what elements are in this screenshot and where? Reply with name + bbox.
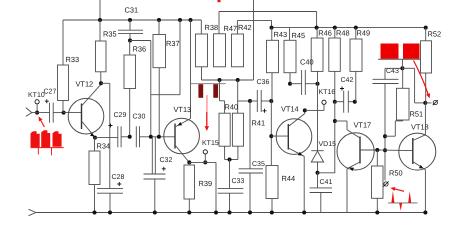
capacitor C41 (310, 187, 332, 189)
wire: vertical feed to top edge x=100 (99, 0, 101, 20)
red arrow to KT15 (206, 95, 208, 126)
svg-text:R49: R49 (357, 29, 371, 38)
red arrow from pulses to phi (414, 61, 429, 96)
VT17 collector (347, 130, 360, 138)
resistor R34 (89, 151, 100, 185)
resistor R43 (267, 40, 279, 72)
annotation baseline over maroon bars (190, 83, 226, 85)
wire: R36 feed/bottom (129, 41, 131, 56)
tiny red tick top (218, 0, 221, 2)
wire: C43 top to node (384, 68, 386, 79)
wire: R48 bottom (334, 71, 336, 101)
VT13 emitter (175, 145, 189, 162)
svg-text:C40: C40 (300, 57, 314, 66)
wire: y=101.3 bias wire (220, 100, 225, 102)
node rail A junctions (98, 18, 102, 22)
wire: R51 bottom jog (385, 135, 395, 137)
svg-text:VT14: VT14 (281, 104, 299, 113)
svg-text:R41: R41 (252, 118, 266, 127)
wire: C43 bottom down (384, 84, 386, 181)
capacitor C36 (256, 90, 258, 112)
svg-text:R39: R39 (199, 179, 213, 188)
resistor R52 (421, 41, 432, 73)
svg-text:R50: R50 (389, 168, 403, 177)
capacitor C33 (218, 187, 244, 189)
VT13 base bar (174, 124, 176, 149)
capacitor C30 (135, 126, 137, 147)
VT18 collector (424, 103, 426, 135)
resistor R35 (96, 41, 107, 72)
svg-text:VT12: VT12 (76, 79, 94, 88)
resistor R33 (58, 65, 69, 101)
svg-text:VD15: VD15 (319, 141, 337, 148)
svg-text:KT15: KT15 (202, 140, 219, 147)
wire: R46 bottom down to VD15 (317, 71, 319, 150)
wire: input to C27 (32, 112, 50, 114)
svg-text:R43: R43 (274, 30, 288, 39)
input chevron (26, 108, 32, 113)
resistor R51 (397, 88, 410, 120)
resistor R47 (214, 34, 226, 67)
capacitor C40 (301, 70, 303, 95)
bus input chevron (29, 209, 37, 212)
svg-text:C28: C28 (112, 174, 125, 181)
measurement stub phi (425, 102, 431, 104)
capacitor C32 (144, 173, 166, 175)
wire: VT17/VT18 base bus (377, 149, 413, 152)
red rect pulses (381, 44, 399, 59)
maroon pulse bars (198, 84, 203, 98)
VT12 emitter (82, 121, 95, 137)
svg-text:R51: R51 (410, 109, 424, 118)
wire: rail B y=11.5 (219, 11, 317, 13)
svg-text:R38: R38 (205, 23, 219, 32)
resistor R50 (372, 166, 384, 198)
resistor R44 (266, 166, 278, 199)
resistor R48 (329, 38, 341, 71)
svg-text:C30: C30 (133, 113, 146, 120)
svg-text:R46: R46 (318, 29, 332, 38)
resistor R37 (153, 35, 166, 68)
svg-text:C35: C35 (252, 161, 265, 168)
VT14 emitter (288, 148, 304, 156)
svg-text:VT13: VT13 (174, 105, 192, 114)
wire: rail drop x=180 to join x=150.8 (179, 20, 181, 95)
svg-text:C42: C42 (341, 77, 354, 84)
svg-text:R48: R48 (336, 29, 350, 38)
svg-text:R33: R33 (66, 55, 80, 64)
svg-text:C32: C32 (160, 157, 173, 164)
svg-text:R52: R52 (428, 29, 442, 38)
resistor R36 (124, 55, 136, 89)
svg-text:R36: R36 (133, 44, 147, 53)
svg-text:C36: C36 (257, 79, 270, 86)
wire: rail A y=20 (63, 19, 201, 21)
svg-text:R42: R42 (238, 23, 252, 32)
VT12 base bar (81, 104, 83, 130)
svg-text:R47: R47 (224, 24, 238, 33)
svg-text:R35: R35 (103, 30, 117, 39)
wire: R35 feed (99, 20, 101, 41)
red waveform at input (31, 131, 40, 147)
wire: node right to R52 bottom (402, 67, 414, 69)
wire: down to VT17 (334, 102, 336, 173)
red arrow annotation at KT10 (40, 119, 45, 127)
node input junction (35, 111, 39, 115)
wire: emitter bus y=137 (95, 137, 118, 139)
wire: R43 bottom (271, 73, 273, 101)
svg-text:R40: R40 (225, 102, 239, 111)
VT14 collector (288, 114, 305, 127)
capacitor C43 (373, 78, 399, 80)
svg-text:R37: R37 (166, 39, 180, 48)
capacitor C35 (239, 168, 263, 170)
wire: rail D y=27.6 (272, 27, 426, 29)
svg-text:VT17: VT17 (354, 120, 372, 129)
wire: R38/R47/R42 bottom bus y=80 (201, 67, 203, 80)
capacitor C42 (343, 91, 345, 113)
wire: vertical from top edge x=253.5 (253, 0, 255, 80)
resistor R46 (311, 38, 323, 71)
svg-text:C33: C33 (232, 178, 245, 185)
svg-text:VT18: VT18 (411, 122, 429, 131)
svg-text:C41: C41 (320, 179, 333, 186)
capacitor C31 (118, 29, 143, 31)
resistor R42 (232, 34, 244, 67)
capacitor C28 (97, 188, 123, 190)
wire: VT13 collector feed (190, 20, 192, 119)
VT18 emitter (413, 162, 426, 170)
wire: C31 bottom branch right (130, 40, 151, 42)
transistor VT18 (399, 133, 436, 170)
resistor R49 (350, 39, 362, 71)
svg-text:R44: R44 (282, 174, 296, 183)
ground bus (36, 212, 425, 214)
svg-text:C43: C43 (386, 68, 399, 75)
wire: down to VT14 base and R44 (270, 101, 272, 166)
resistor R38 (196, 34, 208, 67)
wire: R40/R41 bottoms join (224, 146, 226, 159)
transistor VT13 (164, 118, 200, 154)
capacitor C27 (49, 103, 51, 123)
svg-text:R45: R45 (292, 31, 306, 40)
VT13 collector (175, 119, 191, 128)
red arrow to phi2 (393, 188, 405, 191)
svg-text:C27: C27 (44, 89, 57, 96)
transistor VT17 (337, 133, 374, 170)
svg-text:KT10: KT10 (28, 92, 45, 99)
svg-text:C29: C29 (114, 112, 127, 119)
resistor R39 (184, 165, 195, 199)
resistor R45 (284, 40, 296, 72)
transistor VT12 (68, 98, 104, 134)
wire: collector loop to C28 (101, 82, 110, 84)
VT17 emitter (347, 162, 360, 169)
resistor R41 (232, 113, 243, 146)
capacitor C29 (117, 126, 119, 147)
wire: R37 top/bottom (158, 20, 160, 35)
wire: base wire to VT12 (64, 112, 82, 114)
svg-text:R34: R34 (97, 141, 111, 150)
transistor VT14 (276, 119, 312, 155)
red waveform spikes (388, 202, 418, 204)
wire: R33 bottom (62, 101, 64, 113)
wire: emitter node (189, 161, 216, 163)
resistor R40 (219, 113, 230, 146)
wire: feeds from rail D (271, 28, 273, 41)
wire: R45 bottom / C40 (289, 73, 291, 84)
svg-text:KT16: KT16 (319, 89, 336, 96)
wire: C27 to base node (53, 112, 63, 114)
VT14 base wire (271, 135, 288, 137)
VT12 collector (82, 84, 101, 106)
wire: rail C y=20.4 (237, 19, 271, 21)
svg-text:C31: C31 (125, 6, 139, 15)
wire: VD15 node to VT17 emitter line (318, 172, 336, 174)
VT17 base wire (360, 149, 377, 151)
